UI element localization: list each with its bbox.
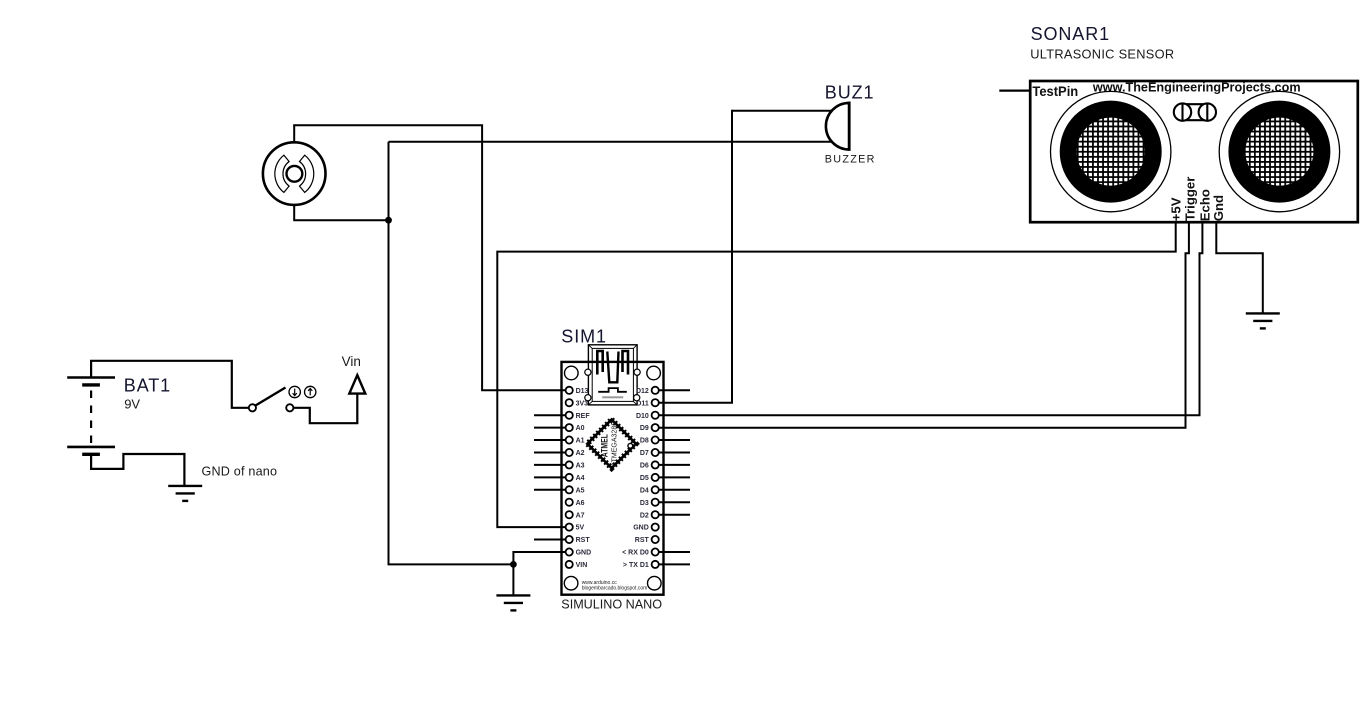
svg-text:A3: A3 (576, 463, 585, 470)
nano pin A2 (left 6) (534, 452, 566, 454)
nano pin 3V3 (left 2) (566, 399, 573, 406)
battery BAT1 plates (67, 376, 115, 379)
wire battery positive to switch (91, 361, 249, 408)
nano pin D7 (right 6) (659, 452, 690, 454)
switch right contact (286, 404, 293, 411)
svg-text:BUZ1: BUZ1 (825, 83, 875, 103)
nano pin REF (left 3) (534, 414, 566, 416)
nano pin D8 (right 5) (659, 439, 690, 441)
junction node B (GND net below nano) (510, 561, 517, 568)
nano pin A6 (left 10) (566, 499, 573, 506)
svg-text:Trigger: Trigger (1183, 177, 1198, 222)
svg-text:A1: A1 (576, 438, 585, 445)
svg-text:D9: D9 (640, 425, 649, 432)
nano pin A7 (left 11) (566, 511, 573, 518)
svg-text:D4: D4 (640, 487, 649, 494)
svg-text:VIN: VIN (576, 562, 588, 569)
ground below nano GND pin (496, 594, 530, 596)
svg-text:A7: A7 (576, 512, 585, 519)
wire vertical net from buzzer-bottom row down to GND row (389, 142, 514, 565)
svg-text:ATMEL: ATMEL (599, 434, 609, 457)
nano pin D9 (right 4) (652, 424, 659, 431)
nano pin D4 (right 9) (659, 489, 690, 491)
svg-text:D7: D7 (640, 450, 649, 457)
battery BAT1 dashed cell link (90, 391, 92, 444)
nano pin RST (right 13) (652, 536, 659, 543)
nano pin GND (right 12) (652, 524, 659, 531)
svg-text:REF: REF (576, 413, 591, 420)
buzzer BUZ1 body (826, 103, 849, 150)
wire Trigger: sonar Trigger pin to nano D9 (659, 222, 1189, 428)
svg-text:SONAR1: SONAR1 (1031, 24, 1110, 44)
nano pin TX TX D1 (right 15) (659, 563, 690, 565)
svg-text:GND: GND (633, 525, 649, 532)
nano pin D12 (right 1) (659, 389, 690, 391)
nano U1 body (562, 362, 664, 595)
nano pin D11 (right 2) (652, 399, 659, 406)
wire nano GND pin to ground below (513, 552, 566, 595)
svg-text:GND of nano: GND of nano (202, 464, 278, 478)
svg-text:Vin: Vin (342, 354, 361, 369)
nano pin D2 (right 11) (659, 514, 690, 516)
svg-text:ATMEGA328P: ATMEGA328P (612, 421, 619, 467)
sonar right transducer (1219, 91, 1339, 211)
nano pin D5 (right 8) (659, 476, 690, 478)
wire buzzer top pin to D11 vertical (732, 110, 833, 112)
motor body circle (263, 142, 326, 205)
svg-text:D2: D2 (640, 512, 649, 519)
svg-text:D12: D12 (636, 388, 649, 395)
svg-text:GND: GND (576, 550, 592, 557)
nano pin A1 (left 5) (534, 439, 566, 441)
svg-text:3V3: 3V3 (576, 400, 589, 407)
svg-text:RST: RST (635, 537, 650, 544)
motor left arc segment (275, 155, 289, 192)
svg-text:A2: A2 (576, 450, 585, 457)
svg-text:D11: D11 (636, 400, 649, 407)
nano pin RST (left 13) (534, 539, 566, 541)
svg-text:A5: A5 (576, 487, 585, 494)
wire +5V: sonar +5V pin to nano 5V pin (497, 222, 1175, 528)
svg-text:A0: A0 (576, 425, 585, 432)
nano pin D13 (left 1) (566, 387, 573, 394)
sonar body rectangle (1030, 81, 1358, 222)
nano USB connector (588, 345, 637, 405)
svg-text:SIM1: SIM1 (561, 326, 607, 346)
nano pin D6 (right 7) (659, 464, 690, 466)
nano pin 5V (left 12) (566, 524, 573, 531)
nano pin A0 (left 4) (534, 427, 566, 429)
svg-text:BUZZER: BUZZER (825, 154, 876, 166)
svg-text:BAT1: BAT1 (124, 376, 171, 396)
svg-text:D8: D8 (640, 438, 649, 445)
svg-text:SIMULINO NANO: SIMULINO NANO (561, 597, 662, 611)
junction node A (motor bottom / vertical net) (385, 217, 392, 224)
wire battery negative to GND-of-nano ground (91, 454, 184, 485)
svg-text:D10: D10 (636, 413, 649, 420)
wire Echo: sonar Echo pin to nano D10 (659, 222, 1203, 416)
svg-text:TestPin: TestPin (1032, 84, 1078, 99)
wire switch to Vin power flag (293, 393, 357, 424)
sonar crystal symbol (1183, 103, 1208, 105)
svg-text:9V: 9V (124, 397, 140, 412)
nano mounting hole top-left (565, 366, 579, 380)
nano USB corner pads (585, 369, 591, 375)
svg-text:5V: 5V (576, 525, 585, 532)
wire sonar Gnd pin to ground (1216, 222, 1263, 314)
nano pin A4 (left 8) (534, 476, 566, 478)
svg-text:A4: A4 (576, 475, 585, 482)
svg-text:D13: D13 (576, 388, 589, 395)
switch actuator circled up-arrow (305, 386, 316, 397)
svg-text:Gnd: Gnd (1211, 195, 1226, 221)
sonar left transducer (1051, 91, 1171, 211)
svg-text:A6: A6 (576, 500, 585, 507)
nano pin D10 (right 3) (652, 412, 659, 419)
svg-text:RST: RST (576, 537, 591, 544)
nano pin VIN (left 15) (566, 561, 573, 568)
ground near sonar (1246, 312, 1280, 314)
nano pin A3 (left 7) (534, 464, 566, 466)
switch lever (256, 388, 286, 406)
power flag Vin (349, 375, 365, 394)
nano mounting hole bottom-left (564, 576, 578, 590)
nano mounting hole top-right (647, 366, 661, 380)
motor hub circle (287, 166, 303, 182)
wire battery-positive net: motor top to D13 of nano (293, 125, 566, 390)
nano pin A5 (left 9) (534, 489, 566, 491)
nano pin D3 (right 10) (659, 501, 690, 503)
svg-text:ULTRASONIC SENSOR: ULTRASONIC SENSOR (1030, 47, 1174, 62)
wire buzzer bottom pin to vertical net (389, 141, 834, 143)
nano pin GND (left 14) (566, 548, 573, 555)
switch actuator circled down-arrow (289, 386, 300, 397)
switch left contact (249, 404, 256, 411)
wire D11 to buzzer vertical (659, 110, 732, 403)
motor right arc segment (300, 155, 314, 192)
svg-text:D3: D3 (640, 500, 649, 507)
svg-text:> TX D1: > TX D1 (623, 562, 649, 569)
wire motor bottom stub to node A (294, 205, 388, 220)
nano mounting hole bottom-right (648, 576, 662, 590)
wire TestPin stub (999, 89, 1031, 91)
svg-text:+5V: +5V (1169, 197, 1184, 221)
wire motor top stub (293, 125, 295, 142)
nano pin RX RX D0 (right 14) (659, 551, 690, 553)
svg-text:D5: D5 (640, 475, 649, 482)
ATMEL ATMEGA328P chip (diamond) (587, 419, 636, 468)
ground near battery (GND of nano) (168, 485, 202, 487)
svg-text:< RX D0: < RX D0 (622, 550, 649, 557)
svg-text:D6: D6 (640, 463, 649, 470)
svg-text:blogembarcado.blogspot.com: blogembarcado.blogspot.com (582, 586, 648, 592)
